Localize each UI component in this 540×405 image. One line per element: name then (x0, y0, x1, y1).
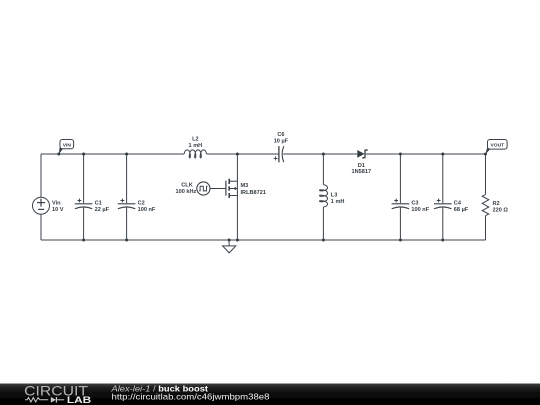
footer logo resistor (25, 398, 48, 402)
capacitor C2 (118, 154, 136, 240)
junction C3 top (399, 153, 402, 156)
svg-text:220 Ω: 220 Ω (493, 208, 509, 214)
svg-text:10 V: 10 V (52, 207, 64, 213)
svg-text:http://circuitlab.com/c46jwmbp: http://circuitlab.com/c46jwmbpm38e8 (112, 392, 270, 402)
junction L3 bottom (322, 239, 325, 242)
svg-text:Vin: Vin (52, 201, 61, 207)
svg-text:C3: C3 (411, 201, 418, 207)
svg-text:VIN: VIN (63, 142, 72, 148)
svg-text:R2: R2 (493, 201, 500, 207)
svg-text:68 µF: 68 µF (454, 207, 469, 213)
label Vin 10 V (52, 201, 64, 214)
label C1 22 uF (95, 201, 110, 214)
transistor M3 body stub (229, 188, 237, 190)
svg-text:C2: C2 (138, 201, 145, 207)
svg-text:1 mH: 1 mH (331, 199, 345, 205)
transistor M3 drain stub (229, 180, 237, 182)
transistor M3 channel bar top (228, 179, 230, 184)
clock source CLK (197, 182, 226, 195)
inductor L2 (184, 150, 206, 158)
svg-text:C1: C1 (95, 201, 102, 207)
wire left rail upper (40, 154, 42, 197)
diode D1 schottky (357, 149, 367, 159)
svg-text:1 mH: 1 mH (189, 143, 203, 149)
wire M3 drain-source rail (236, 154, 238, 240)
label CLK 100 kHz (175, 183, 196, 196)
junction C4 top (441, 153, 444, 156)
capacitor C1 (75, 154, 93, 240)
wire top rail C6-to-D1 (283, 153, 357, 155)
clock source CLK square wave (199, 186, 207, 191)
junction C1 top (82, 153, 85, 156)
junction VOUT corner (484, 153, 487, 156)
node VIN flag (59, 140, 74, 155)
resistor R2 (482, 194, 489, 215)
junction C1 bottom (82, 239, 85, 242)
wire right rail upper (485, 154, 487, 194)
junction M3 drain (236, 153, 239, 156)
label L2 1 mH (189, 137, 203, 150)
label L3 1 mH (331, 193, 345, 206)
transistor M3 NMOS (226, 154, 238, 240)
junction M3 source (236, 239, 239, 242)
label C2 100 nF (138, 201, 156, 214)
svg-text:C6: C6 (277, 132, 284, 138)
transistor M3 source stub (229, 195, 237, 197)
svg-text:LAB: LAB (67, 395, 92, 405)
inductor L3 (320, 185, 328, 207)
label R2 220 Ohm (493, 201, 509, 214)
svg-text:L2: L2 (192, 137, 199, 143)
svg-text:10 µF: 10 µF (274, 139, 289, 145)
svg-text:C4: C4 (454, 201, 462, 207)
label C4 68 uF (454, 201, 469, 214)
svg-text:22 µF: 22 µF (95, 207, 110, 213)
node VOUT flag (485, 140, 507, 155)
clock source CLK circle (197, 182, 210, 195)
wire top rail L2-to-C6 (207, 153, 279, 155)
transistor M3 channel bar middle (228, 186, 230, 190)
junction C4 bottom (441, 239, 444, 242)
capacitor C4 (434, 154, 452, 240)
arrow on M3 body (232, 187, 236, 190)
svg-text:VOUT: VOUT (491, 143, 505, 149)
junction C2 top (125, 153, 128, 156)
wire L3 bottom lead (322, 207, 324, 240)
junction C3 bottom (399, 239, 402, 242)
footer bar (0, 384, 540, 405)
svg-text:100 nF: 100 nF (411, 207, 429, 213)
footer logo diode (51, 397, 56, 403)
svg-text:100 nF: 100 nF (138, 207, 156, 213)
label C3 100 nF (411, 201, 429, 214)
svg-text:M3: M3 (241, 183, 249, 189)
transistor M3 channel bar bottom (228, 193, 230, 198)
junction VIN flag tap (57, 153, 60, 156)
capacitor C6 (274, 146, 284, 162)
wire top rail D1-to-VOUT corner (365, 153, 486, 155)
label C6 10 uF (274, 132, 289, 145)
svg-text:L3: L3 (331, 193, 338, 199)
svg-text:D1: D1 (358, 163, 365, 169)
capacitor C3 (392, 154, 410, 240)
junction ground tap (228, 239, 231, 242)
ground (223, 240, 236, 253)
transistor M3 gate line (225, 181, 227, 196)
label M3 IRLB8721 (241, 183, 267, 196)
label D1 1N5817 (351, 163, 371, 175)
junction C2 bottom (125, 239, 128, 242)
svg-text:CLK: CLK (181, 183, 193, 189)
wire CLK to gate (210, 188, 226, 190)
svg-text:100 kHz: 100 kHz (175, 189, 196, 195)
junction L3 top (322, 153, 325, 156)
voltage source V1 Vin (33, 197, 50, 214)
wire bottom rail (41, 239, 486, 241)
svg-text:1N5817: 1N5817 (351, 169, 371, 175)
wire top rail left segment (41, 153, 184, 155)
svg-text:IRLB8721: IRLB8721 (241, 190, 267, 196)
wire left rail lower (40, 214, 42, 240)
wire right rail lower (485, 216, 487, 240)
wire L3 top lead (322, 154, 324, 185)
